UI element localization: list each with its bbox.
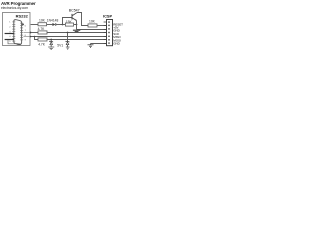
wire A TXD <box>31 24 38 26</box>
svg-text:ICSP: ICSP <box>103 14 112 19</box>
J1 right pin ticks <box>20 23 23 40</box>
wire DB9 pin4 left <box>5 33 14 35</box>
svg-text:1N4148: 1N4148 <box>47 18 59 22</box>
wire C stub <box>24 36 31 38</box>
node D tee <box>34 36 36 38</box>
J1 right pin numbers <box>25 25 27 41</box>
wire D drop <box>35 37 39 40</box>
J2 pin stubs <box>104 22 107 44</box>
wire B stub from DB9 <box>24 32 31 34</box>
node emitter junction <box>76 24 78 26</box>
svg-text:10K: 10K <box>89 20 96 24</box>
node zener1 tap <box>50 39 52 41</box>
zener ZD2 5V1 <box>67 33 69 42</box>
J1 left pin numbers <box>9 22 11 43</box>
wire GND rail to pin3 <box>77 29 108 31</box>
wire collector <box>77 13 88 26</box>
svg-text:15K: 15K <box>66 20 73 24</box>
J1 left pin ticks <box>12 22 15 41</box>
ground G2 <box>66 47 70 49</box>
svg-text:10K: 10K <box>39 18 46 22</box>
node B <box>30 32 32 34</box>
svg-text:RS232: RS232 <box>16 13 29 18</box>
wire B <box>31 32 38 34</box>
node base junction <box>62 24 64 26</box>
node C <box>30 36 32 38</box>
ground G1 <box>73 30 80 32</box>
RS232 box <box>3 13 31 46</box>
node zener2 tap <box>67 32 69 34</box>
wire ground loop bottom <box>8 40 16 44</box>
connector J1 DB9 body <box>14 20 22 45</box>
wire <box>47 24 53 26</box>
wire emitter down <box>76 21 78 30</box>
wire <box>56 24 63 26</box>
resistor R5 4.7K <box>38 38 47 41</box>
wire base riser <box>63 18 73 25</box>
svg-text:GND: GND <box>113 42 120 46</box>
wire E GND <box>91 43 108 45</box>
node TXD stub <box>22 24 24 26</box>
svg-text:4.7K: 4.7K <box>38 27 46 31</box>
J1 bottom shell shading <box>17 43 22 46</box>
J2 pin pads <box>108 21 110 43</box>
J2 pin labels <box>113 22 123 45</box>
svg-text:electronics-diy.com: electronics-diy.com <box>1 6 28 10</box>
svg-text:BC547: BC547 <box>69 8 80 12</box>
ground G3 <box>48 47 54 50</box>
zener ZD1 5V1 <box>50 40 52 42</box>
ground G4 <box>88 44 94 48</box>
wire DB9 pin5 left <box>5 39 14 41</box>
wire C MISO <box>31 36 107 38</box>
svg-text:4.7K: 4.7K <box>38 42 46 46</box>
svg-text:5V1: 5V1 <box>57 43 63 47</box>
